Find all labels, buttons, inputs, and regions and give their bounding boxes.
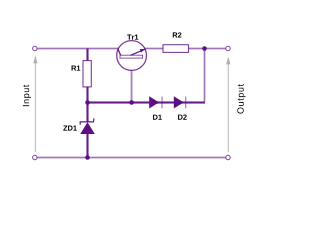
resistor R2 (163, 45, 189, 53)
label D1 (153, 115, 162, 120)
label R2 (173, 32, 182, 37)
wire bottom rail (37, 156, 226, 159)
transistor Tr1 (117, 41, 147, 71)
terminal input bottom (33, 155, 37, 159)
output direction arrow (226, 56, 230, 152)
wire top rail (37, 47, 225, 50)
terminal input top (33, 46, 37, 50)
label R1 (72, 66, 81, 71)
label D2 (178, 115, 187, 120)
diode D1 (149, 96, 162, 108)
wire ZD1 top lead (86, 103, 89, 123)
diode D2 (174, 96, 186, 108)
label Output (237, 84, 245, 114)
resistor R1 (83, 61, 91, 87)
wire transistor base lead (130, 58, 133, 102)
terminal output top (226, 46, 230, 50)
zener diode ZD1 (80, 118, 95, 134)
input direction arrow (33, 55, 37, 152)
wire right column from R2 junction down to mid rail (203, 49, 206, 102)
label ZD1 (63, 126, 77, 131)
junction below R1 (85, 100, 90, 105)
junction transistor base (129, 100, 134, 105)
junction bottom rail (85, 155, 90, 160)
wire ZD1 bottom lead (86, 134, 89, 158)
label Tr1 (127, 35, 138, 40)
wire mid rail junction to right column (88, 101, 206, 104)
wire R1 bottom lead (86, 87, 89, 103)
junction after R2 (202, 46, 207, 51)
label Input (23, 85, 31, 106)
wire R1 top lead (86, 49, 89, 62)
terminal output bottom (226, 155, 230, 159)
